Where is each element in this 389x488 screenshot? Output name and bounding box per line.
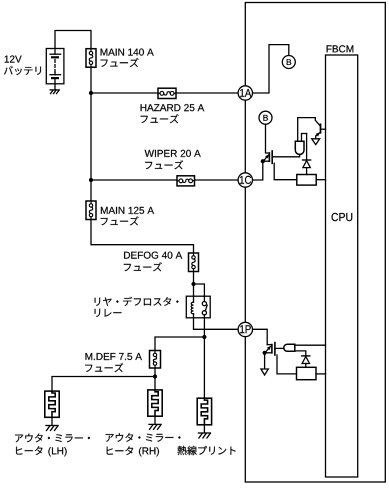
junction DEFOG-relay [191,282,195,286]
battery 12V B1 [46,49,64,84]
wire Q3 body to resistor [277,355,297,374]
heater print wire [197,398,211,425]
label MAIN 140 A fuse JP [101,58,139,67]
driver element U2 [284,344,295,351]
wire Q1 body to resistor [274,163,297,179]
wire LH heater down [51,417,53,425]
wire Q1 source to 1C [252,161,262,180]
driver element U1 [295,141,304,154]
junction MDEF-LH [153,374,157,378]
fuse HAZARD 25 A [158,88,176,98]
heater outer mirror LH [45,391,59,417]
label M.DEF fuse JP [85,363,123,372]
wire print heater down [203,425,205,433]
wire M.DEF down [154,368,156,390]
fuse MAIN 140 A [86,49,96,67]
MOSFET Q1 [263,151,272,163]
resistor R2 [297,367,317,379]
label RH line2 JP [107,447,133,456]
label HAZARD fuse JP [141,114,179,123]
diode D2 [302,356,310,367]
FBCM label [327,45,354,52]
fuse WIPER 20 A [177,176,195,186]
transistor Q2 [315,118,325,139]
label LH line1 JP [15,434,90,443]
wire Q3 gate [275,347,284,349]
wire battery positive to MAIN fuse [55,31,91,49]
wire HAZARD left [91,92,158,94]
junction bus-WIPER [89,178,93,182]
wire U2 top to CPU [295,344,326,346]
resistor R1 [297,175,316,186]
arrow Q2 emitter out [312,139,320,145]
label WIPER fuse JP [145,160,183,169]
label relay JP line2 [95,309,122,317]
wire 1P to MOSFET Q3 [252,329,267,344]
label WIPER 20 A [145,150,201,157]
wire Q1 gate [272,155,299,157]
label print heater JP [178,446,236,455]
ground battery [50,90,59,94]
FBCM module box [245,3,385,483]
wire R1 to CPU [316,179,325,181]
label battery JP [4,66,41,75]
junction Q3 source [263,351,267,355]
wire B to MOSFET drain [266,124,270,153]
pin 1P [238,322,252,336]
wire bus to DEFOG fuse [91,220,194,254]
label LH line2 JP [16,446,42,455]
wire R2 to CPU [316,373,326,375]
label MAIN 125 A fuse JP [101,217,139,226]
MOSFET Q3 [265,343,275,355]
pin 1C [238,173,252,187]
wire DEFOG to relay coil [193,272,195,297]
wire main bus [90,67,92,201]
label DEFOG 40 A [124,252,182,259]
fuse DEFOG 40 A [189,253,199,272]
wire jog to relay switch [194,284,205,296]
label RH suffix [139,447,159,456]
label relay JP line1 [95,297,179,306]
CPU label [332,213,353,221]
label HAZARD 25 A [141,104,205,111]
relay rear defroster [186,296,210,318]
label DEFOG fuse JP [124,262,162,271]
fuse MAIN 125 A [86,201,96,220]
ground RH heater [149,424,161,429]
pin 1A [238,86,252,100]
wire Q3 source down [264,353,266,369]
label RH line1 JP [106,433,181,442]
arrow Q3 source out [261,369,268,375]
node B mosfet [259,111,272,124]
junction Q1 source [261,159,265,163]
diode D1 [303,134,311,175]
wire RH heater down [154,416,156,424]
wire relay coil to 1P [194,318,239,330]
junction switch-MDEF [202,335,206,339]
fuse M.DEF 7.5 A [150,351,161,369]
wire battery negative [54,84,56,90]
label MAIN 125 A [101,207,154,214]
wire WIPER left [91,179,177,181]
label 12V battery [5,56,22,63]
label M.DEF 7.5 A [86,353,142,360]
wire relay switch down [203,318,205,398]
node B top [282,56,295,69]
heater outer mirror RH [148,390,162,416]
CPU block [326,55,358,477]
wire to LH heater [52,377,155,392]
wire 1A to node B [252,45,288,93]
ground LH heater [46,426,58,431]
wire U2 bottom to diode [295,351,306,356]
label MAIN 140 A [101,49,154,56]
wire U1 right lead to diode [302,134,307,142]
junction bus-HAZARD [89,91,93,95]
wire HAZARD to 1A [176,92,238,94]
label LH suffix [48,447,66,456]
ground print heater [198,433,210,438]
wire to M.DEF fuse [155,337,204,351]
wire WIPER to 1C [195,179,239,181]
wire U1 left lead to rail [298,118,316,142]
